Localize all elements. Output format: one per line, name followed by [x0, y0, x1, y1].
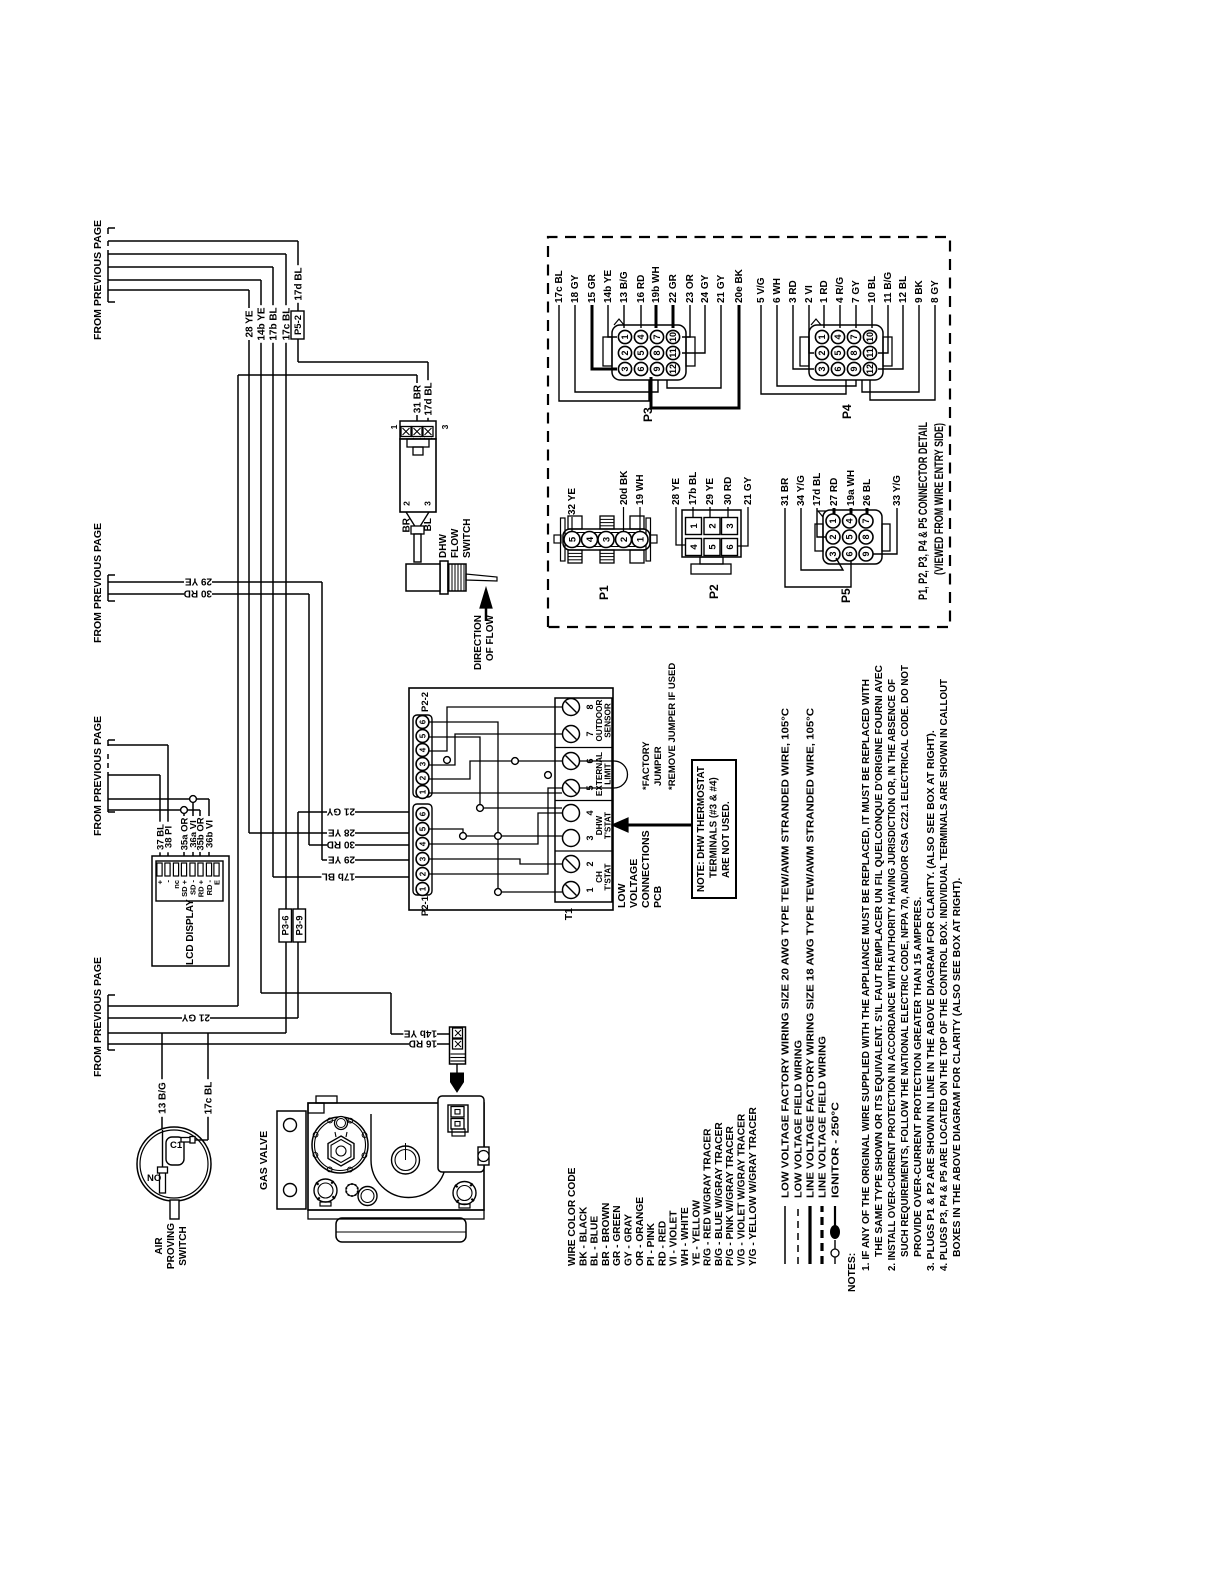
svg-text:LINE VOLTAGE FACTORY WIRING SI: LINE VOLTAGE FACTORY WIRING SIZE 18 AWG … [806, 707, 817, 1198]
svg-text:2: 2 [620, 350, 630, 355]
svg-text:4 R/G: 4 R/G [835, 277, 846, 303]
svg-text:P2-2: P2-2 [420, 692, 431, 712]
svg-text:5: 5 [418, 733, 427, 738]
svg-text:2: 2 [708, 523, 719, 528]
svg-text:1. IF ANY OF THE ORIGINAL WIRE: 1. IF ANY OF THE ORIGINAL WIRE SUPPLIED … [861, 679, 872, 1271]
svg-text:2. INSTALL OVER-CURRENT PROTEC: 2. INSTALL OVER-CURRENT PROTECTION IN AC… [887, 679, 898, 1271]
svg-text:33 Y/G: 33 Y/G [892, 475, 903, 506]
svg-text:30 RD: 30 RD [723, 477, 734, 505]
svg-text:LOW VOLTAGE FACTORY WIRING SIZ: LOW VOLTAGE FACTORY WIRING SIZE 20 AWG T… [781, 707, 792, 1198]
svg-text:20d BK: 20d BK [619, 470, 630, 505]
svg-text:P3-9: P3-9 [295, 915, 306, 935]
svg-text:30 RD: 30 RD [327, 838, 355, 849]
svg-text:13 B/G: 13 B/G [158, 1082, 169, 1114]
svg-text:SENSOR: SENSOR [604, 703, 613, 738]
svg-text:SUCH REQUIREMENTS, FOLLOW THE: SUCH REQUIREMENTS, FOLLOW THE NATIONAL E… [900, 664, 911, 1257]
svg-text:28 YE: 28 YE [328, 826, 355, 837]
svg-text:PI - PINK: PI - PINK [646, 1222, 657, 1266]
svg-text:P1, P2, P3, P4 & P5 CONNECTOR: P1, P2, P3, P4 & P5 CONNECTOR DETAIL [916, 422, 930, 600]
svg-text:RD - RED: RD - RED [657, 1221, 668, 1266]
svg-text:10 BL: 10 BL [867, 276, 878, 303]
svg-text:30 RD: 30 RD [184, 587, 212, 598]
svg-text:6: 6 [418, 811, 427, 816]
svg-text:24 GY: 24 GY [700, 274, 711, 303]
svg-text:P2-1: P2-1 [420, 895, 431, 916]
svg-text:2: 2 [619, 537, 630, 542]
svg-text:P5: P5 [839, 588, 853, 603]
svg-text:1: 1 [620, 334, 630, 339]
svg-text:LOW VOLTAGE FIELD WIRING: LOW VOLTAGE FIELD WIRING [794, 1040, 805, 1198]
svg-text:5: 5 [708, 544, 719, 550]
svg-text:22 GR: 22 GR [668, 273, 679, 303]
svg-text:19a WH: 19a WH [846, 470, 857, 506]
svg-text:29 YE: 29 YE [705, 478, 716, 505]
svg-text:R/G - RED W/GRAY TRACER: R/G - RED W/GRAY TRACER [703, 1128, 714, 1266]
svg-text:2: 2 [585, 861, 595, 866]
svg-text:NO: NO [147, 1173, 161, 1184]
svg-text:19b WH: 19b WH [651, 266, 662, 303]
svg-text:5 V/G: 5 V/G [756, 277, 767, 303]
svg-text:WIRE COLOR CODE: WIRE COLOR CODE [567, 1167, 578, 1266]
svg-text:14b YE: 14b YE [603, 270, 614, 303]
svg-text:12: 12 [865, 364, 875, 374]
svg-text:4: 4 [418, 841, 427, 846]
svg-text:3: 3 [620, 366, 630, 371]
svg-text:1 RD: 1 RD [819, 280, 830, 303]
svg-text:IGNITOR - 250°C: IGNITOR - 250°C [831, 1101, 842, 1198]
svg-text:5: 5 [567, 536, 578, 542]
svg-text:FROM PREVIOUS PAGE: FROM PREVIOUS PAGE [92, 957, 104, 1077]
svg-text:*REMOVE JUMPER IF USED: *REMOVE JUMPER IF USED [667, 663, 678, 790]
svg-text:18 GY: 18 GY [570, 274, 581, 303]
svg-text:OR - ORANGE: OR - ORANGE [635, 1197, 646, 1266]
svg-text:2: 2 [828, 534, 838, 539]
svg-text:GR - GREEN: GR - GREEN [612, 1205, 623, 1266]
svg-text:1: 1 [418, 886, 427, 891]
svg-text:31 BR: 31 BR [413, 384, 424, 413]
svg-text:BL - BLUE: BL - BLUE [590, 1216, 601, 1266]
svg-text:3: 3 [828, 551, 838, 556]
svg-text:21 GY: 21 GY [716, 274, 727, 303]
svg-text:P5-2: P5-2 [293, 315, 304, 335]
svg-text:1: 1 [585, 887, 595, 892]
svg-text:13 B/G: 13 B/G [619, 271, 630, 303]
svg-text:WH - WHITE: WH - WHITE [680, 1207, 691, 1266]
svg-text:21 GY: 21 GY [743, 476, 754, 505]
svg-text:SWITCH: SWITCH [178, 1226, 189, 1265]
svg-text:3: 3 [817, 366, 827, 371]
svg-text:21 GY: 21 GY [326, 805, 355, 816]
svg-text:YE - YELLOW: YE - YELLOW [691, 1200, 702, 1266]
svg-text:B/G - BLUE W/GRAY TRACER: B/G - BLUE W/GRAY TRACER [714, 1122, 725, 1266]
svg-text:21 GY: 21 GY [181, 1011, 210, 1022]
svg-text:17b BL: 17b BL [688, 472, 699, 505]
svg-text:10: 10 [668, 332, 678, 342]
svg-text:P2: P2 [707, 584, 721, 599]
svg-text:BOXES IN THE ABOVE DIAGRAM FOR: BOXES IN THE ABOVE DIAGRAM FOR CLARITY (… [952, 878, 963, 1257]
svg-text:15 GR: 15 GR [587, 273, 598, 303]
svg-text:NOTE: DHW THERMOSTAT: NOTE: DHW THERMOSTAT [696, 766, 707, 892]
svg-text:3. PLUGS P1 & P2 ARE SHOWN IN: 3. PLUGS P1 & P2 ARE SHOWN IN LINE IN TH… [926, 730, 937, 1271]
svg-text:P3-6: P3-6 [281, 915, 292, 935]
svg-text:6: 6 [833, 366, 843, 371]
svg-text:3: 3 [585, 835, 595, 840]
svg-text:8: 8 [585, 704, 595, 709]
svg-text:3: 3 [423, 501, 433, 506]
svg-text:9: 9 [861, 551, 871, 556]
svg-text:LINE VOLTAGE FIELD WIRING: LINE VOLTAGE FIELD WIRING [818, 1036, 829, 1198]
svg-text:29 YE: 29 YE [185, 575, 212, 586]
svg-text:PCB: PCB [652, 885, 664, 908]
svg-text:4. PLUGS P3, P4 & P5 ARE LOCAT: 4. PLUGS P3, P4 & P5 ARE LOCATED ON THE … [939, 678, 950, 1271]
svg-text:2 VI: 2 VI [804, 285, 815, 303]
svg-text:P/G - PINK W/GRAY TRACER: P/G - PINK W/GRAY TRACER [725, 1126, 736, 1266]
svg-text:7: 7 [652, 334, 662, 339]
svg-text:1: 1 [689, 523, 700, 529]
svg-text:FLOW: FLOW [450, 528, 461, 558]
svg-text:9: 9 [652, 366, 662, 371]
svg-text:*FACTORY: *FACTORY [641, 741, 652, 790]
svg-text:36b VI: 36b VI [205, 820, 216, 848]
svg-text:1: 1 [389, 424, 399, 429]
svg-text:2: 2 [817, 350, 827, 355]
svg-text:Y/G - YELLOW W/GRAY TRACER: Y/G - YELLOW W/GRAY TRACER [748, 1106, 759, 1266]
svg-text:NOTES:: NOTES: [847, 1253, 858, 1292]
svg-text:2: 2 [402, 501, 412, 506]
svg-text:THE SAME TYPE SHOWN OR ITS EQU: THE SAME TYPE SHOWN OR ITS EQUIVALENT. S… [874, 665, 885, 1257]
svg-text:5: 5 [845, 534, 855, 539]
svg-text:4: 4 [585, 536, 596, 542]
svg-text:PROVING: PROVING [166, 1223, 177, 1269]
svg-text:8: 8 [849, 350, 859, 355]
svg-text:14b YE: 14b YE [257, 307, 268, 340]
svg-text:16 RD: 16 RD [409, 1037, 437, 1048]
svg-text:5: 5 [636, 350, 646, 355]
svg-text:9: 9 [849, 366, 859, 371]
svg-text:7: 7 [585, 731, 595, 736]
svg-text:14b YE: 14b YE [404, 1027, 437, 1038]
svg-text:10: 10 [865, 332, 875, 342]
svg-text:17b BL: 17b BL [322, 870, 355, 881]
svg-text:OF FLOW: OF FLOW [485, 614, 496, 661]
svg-text:DHW: DHW [438, 534, 449, 558]
svg-text:11: 11 [668, 348, 678, 358]
svg-text:FROM PREVIOUS PAGE: FROM PREVIOUS PAGE [92, 220, 104, 340]
svg-text:12: 12 [668, 364, 678, 374]
svg-text:GAS VALVE: GAS VALVE [258, 1131, 270, 1190]
svg-text:12 BL: 12 BL [898, 276, 909, 303]
svg-text:7: 7 [849, 334, 859, 339]
svg-text:SWITCH: SWITCH [462, 519, 473, 558]
svg-text:(VIEWED FROM WIRE ENTRY SIDE): (VIEWED FROM WIRE ENTRY SIDE) [932, 423, 946, 575]
svg-text:V/G - VIOLET W/GRAY TRACER: V/G - VIOLET W/GRAY TRACER [737, 1113, 748, 1266]
svg-text:17c BL: 17c BL [204, 1082, 215, 1115]
svg-text:AIR: AIR [154, 1237, 165, 1255]
svg-text:4: 4 [418, 747, 427, 752]
svg-text:17c BL: 17c BL [554, 270, 565, 303]
svg-text:19 WH: 19 WH [635, 474, 646, 505]
svg-text:4: 4 [833, 334, 843, 339]
svg-text:T'STAT: T'STAT [604, 863, 613, 890]
svg-text:GY - GRAY: GY - GRAY [624, 1214, 635, 1266]
svg-text:LIMIT: LIMIT [604, 763, 613, 784]
svg-text:3: 3 [418, 856, 427, 861]
svg-text:8: 8 [861, 534, 871, 539]
svg-text:38 PI: 38 PI [164, 826, 175, 848]
svg-text:6: 6 [725, 544, 736, 549]
svg-text:16 RD: 16 RD [636, 275, 647, 303]
svg-text:3: 3 [440, 424, 450, 429]
svg-text:28 YE: 28 YE [245, 310, 256, 337]
svg-text:6: 6 [418, 719, 427, 724]
svg-text:CONNECTIONS: CONNECTIONS [640, 830, 652, 908]
svg-text:P4: P4 [840, 404, 854, 419]
svg-text:1: 1 [817, 334, 827, 339]
svg-text:4: 4 [845, 518, 855, 523]
svg-text:3: 3 [418, 761, 427, 766]
svg-text:8 GY: 8 GY [930, 280, 941, 303]
svg-text:4: 4 [689, 544, 700, 550]
svg-text:7 GY: 7 GY [851, 280, 862, 303]
svg-text:6: 6 [845, 551, 855, 556]
svg-text:31 BR: 31 BR [780, 477, 791, 506]
svg-text:17d BL: 17d BL [294, 267, 305, 300]
svg-text:VI - VIOLET: VI - VIOLET [669, 1210, 680, 1266]
svg-text:3: 3 [725, 523, 736, 528]
svg-text:34 Y/G: 34 Y/G [796, 475, 807, 506]
svg-text:11: 11 [865, 348, 875, 358]
svg-text:6: 6 [636, 366, 646, 371]
svg-text:TERMINALS (#3 & #4): TERMINALS (#3 & #4) [709, 777, 720, 878]
svg-text:23 OR: 23 OR [685, 273, 696, 303]
svg-text:17d BL: 17d BL [424, 382, 435, 415]
svg-text:FROM PREVIOUS PAGE: FROM PREVIOUS PAGE [92, 716, 104, 836]
svg-text:26 BL: 26 BL [862, 479, 873, 506]
svg-text:5: 5 [833, 350, 843, 355]
svg-text:17b BL: 17b BL [269, 307, 280, 340]
svg-text:5: 5 [418, 826, 427, 831]
svg-text:PROVIDE OVER-CURRENT PROTECTIO: PROVIDE OVER-CURRENT PROTECTION GREATER … [913, 897, 924, 1257]
svg-text:8: 8 [652, 350, 662, 355]
svg-text:28 YE: 28 YE [671, 478, 682, 505]
svg-text:27 RD: 27 RD [829, 478, 840, 506]
svg-text:4: 4 [585, 810, 595, 815]
svg-text:17d BL: 17d BL [812, 473, 823, 506]
svg-text:T1: T1 [563, 908, 575, 920]
svg-text:LCD DISPLAY: LCD DISPLAY [185, 899, 196, 965]
svg-text:4: 4 [636, 334, 646, 339]
svg-text:BK - BLACK: BK - BLACK [578, 1206, 589, 1266]
svg-text:ARE NOT USED.: ARE NOT USED. [721, 801, 732, 878]
svg-text:BR - BROWN: BR - BROWN [601, 1203, 612, 1266]
svg-text:JUMPER: JUMPER [653, 746, 664, 786]
svg-text:3: 3 [601, 537, 612, 542]
svg-text:FROM PREVIOUS PAGE: FROM PREVIOUS PAGE [92, 523, 104, 643]
svg-text:11 B/G: 11 B/G [883, 272, 894, 303]
svg-text:9 BK: 9 BK [914, 279, 925, 303]
svg-text:2: 2 [418, 775, 427, 780]
svg-text:1: 1 [418, 789, 427, 794]
svg-text:LOW: LOW [616, 883, 628, 908]
svg-text:7: 7 [861, 518, 871, 523]
svg-text:3 RD: 3 RD [788, 280, 799, 303]
svg-text:1: 1 [828, 518, 838, 523]
svg-text:E: E [213, 880, 222, 885]
svg-text:T'STAT: T'STAT [604, 812, 613, 839]
svg-text:P1: P1 [597, 585, 611, 600]
svg-text:VOLTAGE: VOLTAGE [628, 859, 640, 908]
svg-text:6 WH: 6 WH [772, 278, 783, 303]
svg-text:1: 1 [635, 536, 646, 542]
svg-text:20e BK: 20e BK [734, 268, 745, 303]
svg-text:DIRECTION: DIRECTION [473, 615, 484, 670]
svg-text:29 YE: 29 YE [328, 853, 355, 864]
svg-text:2: 2 [418, 871, 427, 876]
svg-text:32 YE: 32 YE [567, 488, 578, 515]
